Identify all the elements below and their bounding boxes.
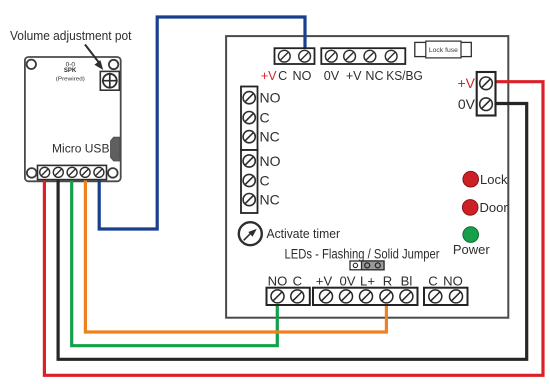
screw +V [344,50,356,62]
screw terminal 2 (black wire) [53,167,63,177]
svg-text:NO: NO [293,69,312,83]
svg-text:C: C [428,274,437,289]
top terminal labels [261,69,423,83]
LED Power [463,227,479,243]
screw KS/BG [385,50,397,62]
wire orange (to L+/R terminal R) [85,177,386,332]
label 0-0 SPK (Prewired) [56,62,85,83]
activate timer dial [239,222,262,245]
svg-text:SPK: SPK [64,68,77,74]
relay terminal strip lower (NO/C/NC) [241,150,258,213]
screw NO [299,50,311,62]
screw 0V power [480,98,493,111]
screw terminal 1 (red wire) [40,167,50,177]
svg-text:Bl: Bl [401,274,413,289]
screw NO bottom [271,290,284,303]
svg-text:NO: NO [268,274,288,289]
svg-text:0V: 0V [458,96,476,112]
screw 0V [325,50,337,62]
svg-text:Micro USB: Micro USB [52,142,110,156]
main controller board [226,36,508,318]
LED Lock [463,171,479,187]
svg-text:L+: L+ [360,274,375,289]
Micro USB connector [111,137,120,161]
screw +VC [278,50,290,62]
svg-text:C: C [260,172,270,188]
relay screw NC 1 [243,131,255,143]
bottom terminal labels [268,274,463,289]
svg-text:NO: NO [260,153,281,169]
mounting hole top-left [27,60,36,69]
svg-text:0V: 0V [324,69,340,83]
screw Bl bottom [400,290,413,303]
svg-text:+V: +V [316,274,333,289]
LED Door [462,200,478,216]
screw C bottom [291,290,304,303]
relay screw C 2 [243,174,255,186]
lock fuse [415,41,472,58]
wire green (to bottom NO terminal) [72,177,278,346]
screw +V bottom [320,290,333,303]
power terminal block +V/0V [477,72,496,116]
svg-text:0V: 0V [339,274,355,289]
svg-text:R: R [383,274,392,289]
svg-text:Power: Power [453,242,491,257]
wire blue (speaker module to +VC/NO terminal) [99,17,305,229]
svg-text:+V: +V [346,69,362,83]
screw +V power [480,77,493,90]
screw NC [364,50,376,62]
svg-text:Door: Door [480,200,509,215]
svg-text:NC: NC [260,129,280,145]
relay screw NO 2 [243,155,255,167]
wire red (bottom loop to +V terminal) [44,82,543,376]
screw terminal 3 (green wire) [67,167,77,177]
potentiometer (volume adjustment pot) [100,71,119,90]
top terminal block +VC/NO [275,48,315,64]
relay labels [260,90,281,208]
speaker module board [25,57,121,181]
screw terminal 4 (orange wire) [80,167,90,177]
relay screw C 1 [243,112,255,124]
relay screw NO 1 [243,92,255,104]
svg-text:Lock: Lock [480,172,508,187]
mounting hole top-right [109,60,118,69]
relay screw NC 2 [243,194,255,206]
screw NO bottom right [450,290,463,303]
svg-text:Activate timer: Activate timer [267,226,341,241]
screw 0V bottom [340,290,353,303]
bottom terminal block NO/C [267,288,310,305]
svg-text:C: C [293,274,302,289]
svg-text:+VC: +VC [261,69,287,83]
svg-text:NC: NC [365,69,383,83]
svg-text:Lock fuse: Lock fuse [429,47,458,54]
svg-text:Volume adjustment pot: Volume adjustment pot [10,28,132,43]
bottom terminal block +V/0V/L+/R/Bl [313,288,418,305]
wire black (bottom loop to 0V terminal) [58,104,527,360]
arrow to potentiometer [85,45,103,71]
mounting hole bottom-right [108,168,118,178]
svg-text:NO: NO [260,90,281,106]
screw terminal 5 (blue wire) [94,167,104,177]
jumper header [350,261,384,270]
mounting hole bottom-left [27,168,37,178]
svg-text:KS/BG: KS/BG [386,69,423,83]
svg-text:(Prewired): (Prewired) [56,77,85,83]
bottom terminal block C/NO [424,288,468,305]
svg-text:C: C [260,110,270,126]
relay terminal strip upper (NO/C/NC) [241,87,258,151]
screw C bottom right [429,290,442,303]
screw L+ bottom [360,290,373,303]
svg-text:+V: +V [457,75,475,91]
speaker module terminal strip [38,165,107,179]
svg-text:LEDs - Flashing / Solid Jumper: LEDs - Flashing / Solid Jumper [285,247,440,262]
screw R bottom [380,290,393,303]
top terminal block 0V/+V/NC/KS-BG [321,48,405,64]
svg-text:NC: NC [260,192,280,208]
svg-text:NO: NO [443,274,463,289]
